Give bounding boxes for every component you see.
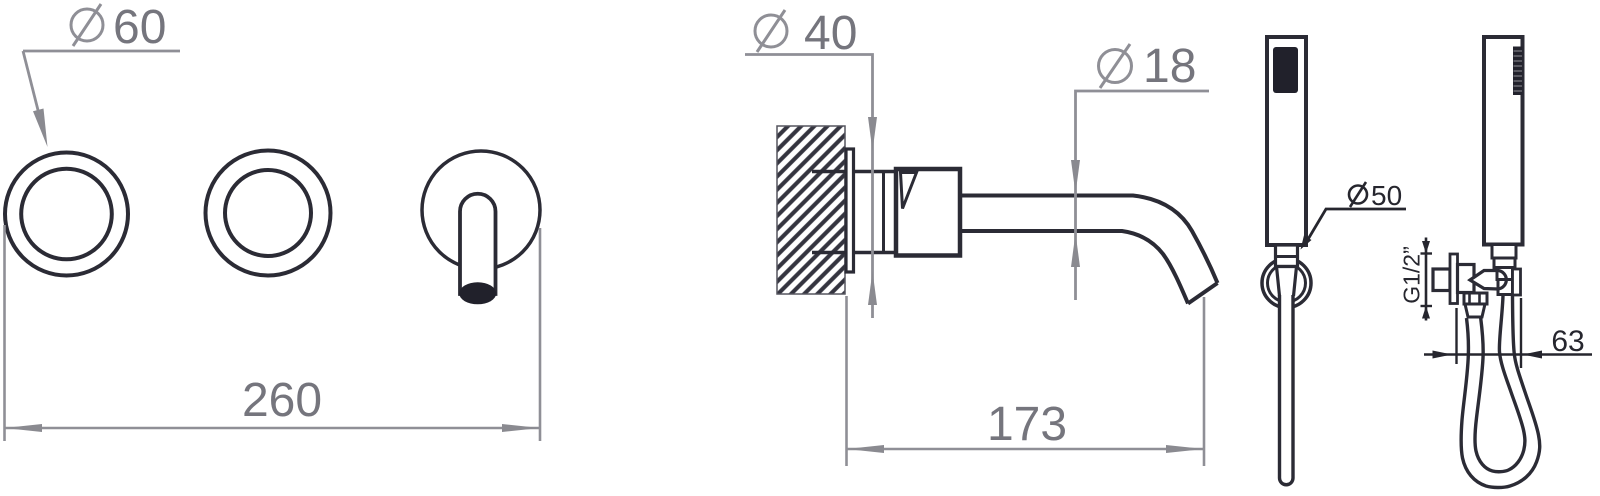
G 1/2 arrow up [1422, 306, 1430, 319]
extension line 173 left [845, 296, 848, 466]
wall section hatched [777, 126, 845, 294]
arrow D18 down [1071, 160, 1080, 194]
G 1/2 tick top [1421, 252, 1433, 254]
extension line 173 right [1203, 297, 1206, 466]
spout tube top line [958, 196, 1218, 284]
wall stub pipe [1433, 269, 1450, 291]
spout tip line [1188, 283, 1218, 304]
label D50 symbol [1349, 182, 1367, 207]
holder body [1458, 265, 1475, 293]
hose cone front [1277, 267, 1297, 297]
spray face strip side [1513, 47, 1523, 96]
svg-text:60: 60 [113, 1, 166, 54]
dimension line 63 [1424, 353, 1592, 356]
extension line 260 right [539, 228, 542, 441]
arrow D18 up [1071, 233, 1080, 267]
knob K1 outer [5, 153, 128, 276]
valve body rect [896, 169, 960, 256]
arrow D40 up [868, 271, 877, 305]
extension line 63 right [1520, 298, 1522, 368]
holder bullet cup [1470, 271, 1506, 290]
outlet flare [1465, 304, 1485, 317]
ring holder inner [1268, 264, 1306, 302]
handle neck front [1276, 245, 1298, 267]
leader D50 [1307, 209, 1406, 241]
dimension line 173 [847, 448, 1205, 451]
neck side s1 [1492, 245, 1516, 259]
arrow 260 right [502, 424, 540, 432]
G 1/2 tick bottom [1421, 305, 1433, 307]
spout outlet ellipse [459, 282, 496, 304]
pipe in wall bottom line [812, 251, 896, 255]
hose loop outer [1461, 296, 1540, 488]
svg-text:260: 260 [242, 374, 322, 427]
pipe in wall top line [812, 170, 896, 174]
label D40 symbol [755, 10, 787, 52]
arrow 173 right [1166, 445, 1204, 453]
extension line 63 left [1455, 308, 1457, 364]
extension line 260 left [3, 225, 6, 441]
label D60 symbol [71, 4, 103, 46]
hose front [1280, 295, 1294, 485]
knob K2 outer [206, 151, 331, 276]
handle face plate black [1273, 47, 1298, 93]
hose loop inner [1475, 296, 1525, 472]
svg-text:40: 40 [804, 7, 857, 60]
svg-text:18: 18 [1143, 40, 1196, 93]
label D18 symbol [1099, 44, 1132, 88]
hose nut side [1498, 280, 1513, 295]
svg-text:50: 50 [1371, 180, 1402, 211]
holder clip bar [1513, 269, 1521, 295]
arrow 63 left [1433, 351, 1453, 359]
nut facet lines [1468, 293, 1471, 304]
arrow D40 down [868, 117, 877, 151]
escutcheon circle [422, 151, 540, 269]
svg-text:G1/2”: G1/2” [1399, 246, 1425, 304]
knob K1 inner [21, 169, 112, 260]
svg-text:173: 173 [987, 398, 1067, 451]
spout front tube [460, 194, 496, 294]
leader D60 [23, 50, 180, 53]
knob K2 inner [225, 170, 311, 256]
outlet nut [1464, 293, 1487, 304]
leader D18 [1076, 91, 1210, 300]
dimension line 260 [5, 427, 541, 430]
spout tube bottom line [958, 231, 1188, 304]
handle body front [1267, 37, 1306, 245]
G 1/2 arrow down [1422, 241, 1430, 254]
wall plate side [1450, 254, 1458, 304]
arrow 260 left [5, 424, 43, 432]
arrow 173 left [847, 445, 885, 453]
valve triangle mark [901, 173, 917, 209]
neck side s3 [1497, 268, 1513, 280]
leader D40 [745, 55, 873, 319]
wall flange bar [846, 149, 854, 272]
leader arrow D60 [33, 109, 48, 148]
ring holder outer [1262, 259, 1311, 308]
G 1/2 dimension line [1425, 238, 1428, 321]
neck mid line [1276, 255, 1298, 258]
leader arrow D50 [1301, 235, 1312, 249]
neck side s2 [1494, 258, 1515, 268]
arrow 63 right [1523, 351, 1543, 359]
sleeve division line [882, 172, 885, 253]
handle body side [1484, 37, 1523, 245]
svg-text:63: 63 [1551, 325, 1584, 358]
